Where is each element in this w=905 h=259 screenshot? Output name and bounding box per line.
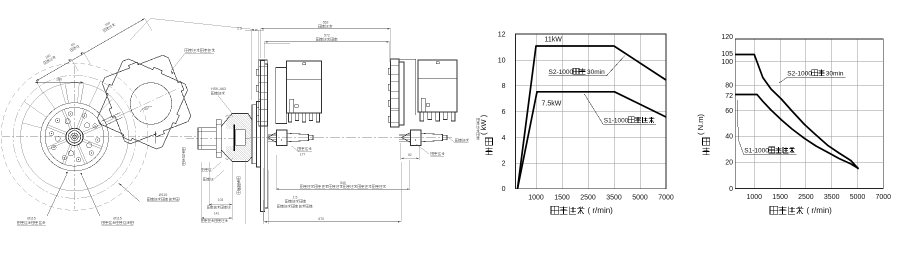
svg-text:5000: 5000 xyxy=(632,194,648,201)
svg-text:Ø115: Ø115 xyxy=(113,217,122,221)
svg-text:7000: 7000 xyxy=(658,194,674,201)
svg-text:82: 82 xyxy=(408,153,412,157)
svg-text:3500: 3500 xyxy=(824,194,840,201)
svg-text:1000: 1000 xyxy=(528,194,544,201)
svg-text:HSK-A63: HSK-A63 xyxy=(211,87,226,91)
svg-text:( r/min): ( r/min) xyxy=(588,206,614,215)
svg-text:5000: 5000 xyxy=(850,194,866,201)
svg-text:20: 20 xyxy=(725,159,733,166)
svg-text:670: 670 xyxy=(318,217,324,221)
svg-text:30min: 30min xyxy=(587,69,605,76)
svg-text:3500: 3500 xyxy=(606,194,622,201)
svg-text:30min: 30min xyxy=(826,70,844,77)
svg-text:0: 0 xyxy=(729,186,733,193)
svg-text:80: 80 xyxy=(725,82,733,89)
svg-text:40: 40 xyxy=(725,134,733,141)
svg-text:563: 563 xyxy=(323,21,329,25)
svg-text:105: 105 xyxy=(721,51,733,58)
svg-text:2500: 2500 xyxy=(580,194,596,201)
svg-text:S1-1000: S1-1000 xyxy=(744,148,769,155)
svg-text:7.5kW: 7.5kW xyxy=(542,101,562,108)
svg-text:8: 8 xyxy=(502,83,506,90)
svg-text:S1-1000: S1-1000 xyxy=(604,118,629,125)
svg-text:Ø115: Ø115 xyxy=(159,193,168,197)
svg-text:180: 180 xyxy=(56,78,62,82)
svg-text:1500: 1500 xyxy=(554,194,570,201)
svg-text:Ø117: Ø117 xyxy=(238,182,242,190)
svg-text:12: 12 xyxy=(498,31,506,38)
svg-text:6: 6 xyxy=(502,109,506,116)
svg-text:1000: 1000 xyxy=(747,194,763,201)
svg-text:2: 2 xyxy=(502,161,506,168)
svg-text:1:5: 1:5 xyxy=(293,196,298,200)
svg-text:S2-1000: S2-1000 xyxy=(787,70,812,77)
svg-text:103: 103 xyxy=(218,198,224,202)
svg-text:540: 540 xyxy=(340,181,346,185)
svg-text:141: 141 xyxy=(214,211,220,215)
svg-text:120: 120 xyxy=(721,34,733,41)
svg-text:177: 177 xyxy=(300,153,306,157)
svg-text:30°: 30° xyxy=(144,107,150,111)
svg-text:( kW ): ( kW ) xyxy=(479,114,488,135)
svg-text:7000: 7000 xyxy=(876,194,892,201)
svg-text:100: 100 xyxy=(721,59,733,66)
svg-text:10: 10 xyxy=(498,57,506,64)
svg-text:S2-1000: S2-1000 xyxy=(549,69,574,76)
svg-text:( r/min): ( r/min) xyxy=(807,206,833,215)
svg-text:4: 4 xyxy=(502,135,506,142)
svg-text:( N.m): ( N.m) xyxy=(696,113,705,135)
svg-text:Ø115: Ø115 xyxy=(27,217,36,221)
svg-text:2.5: 2.5 xyxy=(237,26,242,30)
svg-text:2500: 2500 xyxy=(798,194,814,201)
svg-text:572: 572 xyxy=(324,34,330,38)
svg-text:72: 72 xyxy=(725,93,733,100)
svg-text:1500: 1500 xyxy=(772,194,788,201)
svg-text:60: 60 xyxy=(725,108,733,115)
svg-text:0: 0 xyxy=(502,186,506,193)
svg-text:160: 160 xyxy=(104,21,111,27)
svg-text:11kW: 11kW xyxy=(545,37,563,44)
